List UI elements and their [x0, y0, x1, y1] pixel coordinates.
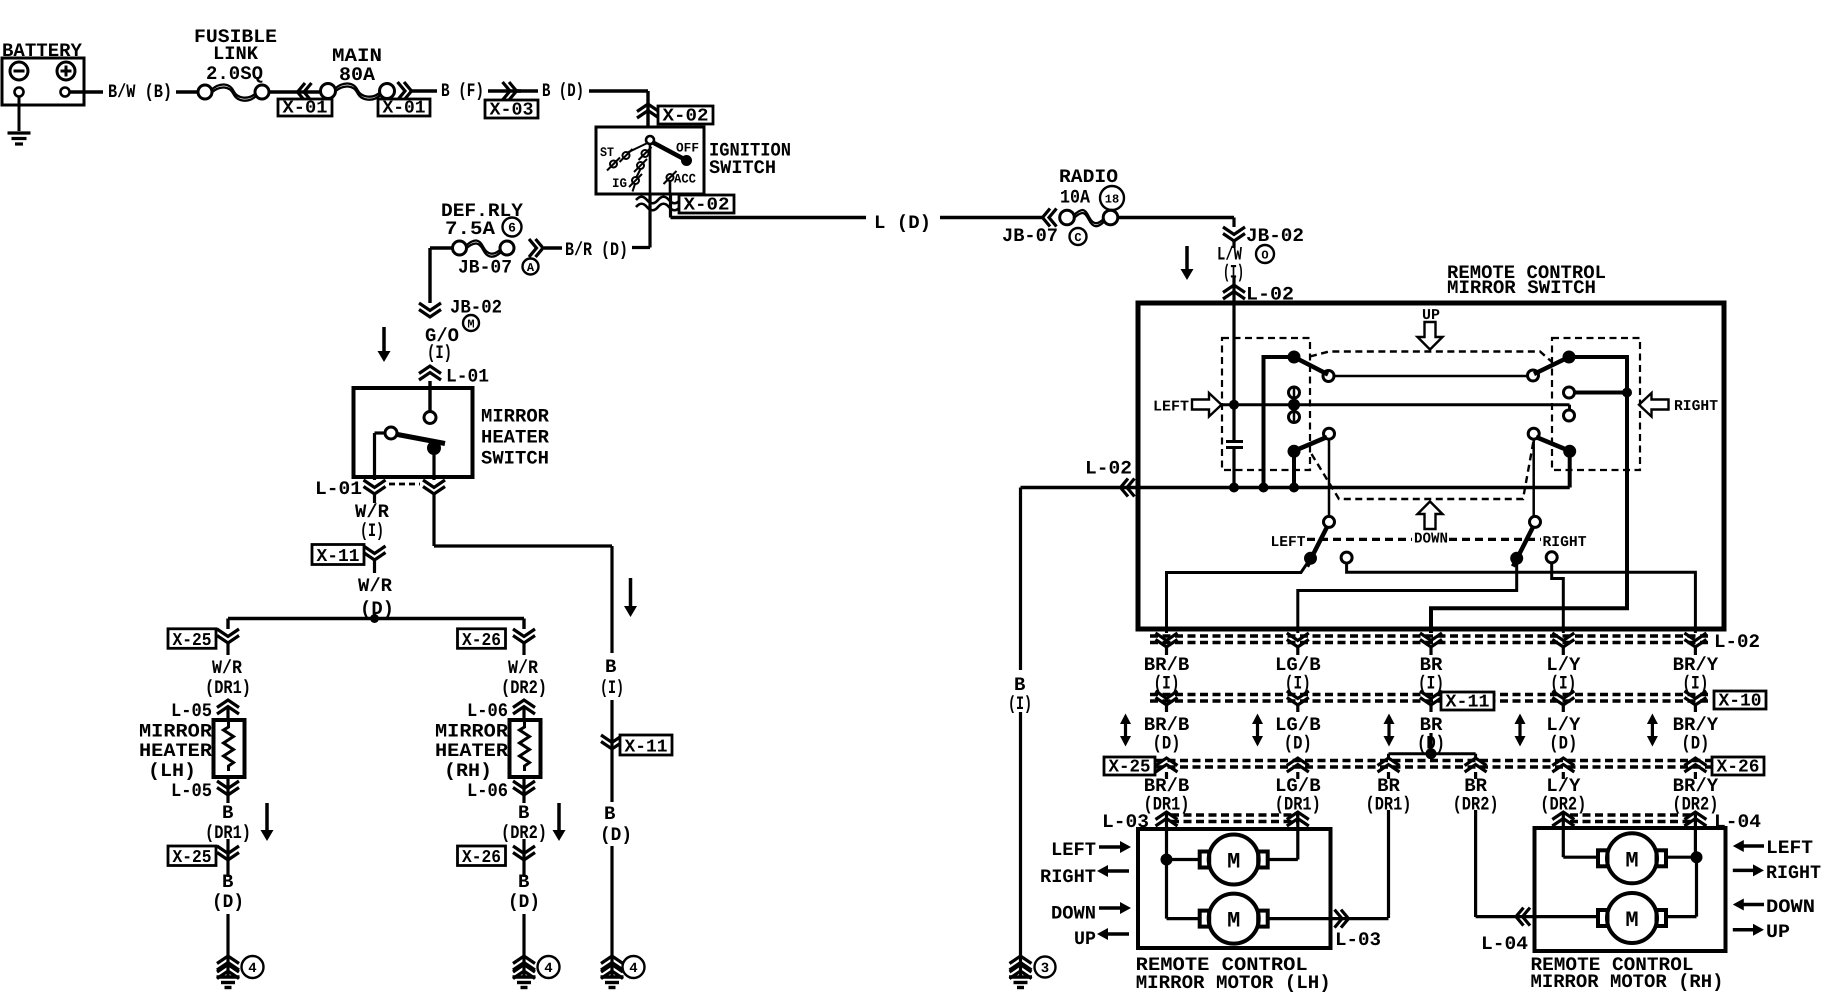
- svg-text:B: B: [222, 802, 233, 824]
- svg-text:SWITCH: SWITCH: [709, 157, 776, 179]
- svg-text:DOWN: DOWN: [1051, 903, 1096, 925]
- svg-text:(D): (D): [1284, 733, 1312, 755]
- svg-text:(I): (I): [1008, 693, 1032, 715]
- svg-text:X-26: X-26: [1717, 758, 1760, 778]
- svg-text:HEATER: HEATER: [481, 427, 550, 449]
- svg-text:LEFT: LEFT: [1766, 837, 1813, 859]
- svg-text:(RH): (RH): [444, 760, 492, 782]
- svg-text:X-25: X-25: [173, 848, 212, 868]
- svg-text:3: 3: [1041, 961, 1049, 977]
- svg-text:SWITCH: SWITCH: [481, 448, 549, 470]
- svg-text:B/R (D): B/R (D): [565, 239, 628, 261]
- svg-text:L-01: L-01: [315, 478, 362, 500]
- svg-text:(DR2): (DR2): [501, 677, 547, 699]
- svg-text:(D): (D): [508, 891, 540, 913]
- svg-text:B (F): B (F): [441, 80, 484, 102]
- svg-text:C: C: [1074, 231, 1081, 245]
- svg-text:X-11: X-11: [317, 547, 360, 567]
- svg-text:JB-02: JB-02: [450, 297, 502, 319]
- svg-text:(I): (I): [600, 677, 624, 699]
- svg-text:RADIO: RADIO: [1059, 166, 1118, 188]
- svg-text:(I): (I): [427, 342, 452, 364]
- svg-text:7.5A: 7.5A: [445, 218, 496, 240]
- svg-text:6: 6: [508, 221, 516, 236]
- svg-text:MIRROR MOTOR (RH): MIRROR MOTOR (RH): [1531, 971, 1724, 992]
- svg-text:B/W (B): B/W (B): [108, 81, 172, 103]
- svg-text:L-05: L-05: [171, 700, 212, 722]
- svg-text:DOWN: DOWN: [1766, 896, 1815, 918]
- svg-text:LINK: LINK: [213, 43, 259, 65]
- svg-text:(DR1): (DR1): [205, 677, 251, 699]
- svg-text:X-25: X-25: [173, 631, 212, 651]
- svg-text:ACC: ACC: [674, 172, 696, 187]
- svg-text:JB-07: JB-07: [458, 257, 512, 279]
- svg-text:L-01: L-01: [446, 366, 489, 388]
- svg-text:(LH): (LH): [148, 760, 196, 782]
- svg-text:X-02: X-02: [663, 107, 709, 127]
- svg-text:LEFT: LEFT: [1051, 839, 1096, 861]
- svg-text:(I): (I): [360, 520, 384, 542]
- svg-text:LEFT: LEFT: [1271, 534, 1306, 551]
- svg-text:X-11: X-11: [1446, 693, 1490, 713]
- svg-text:M: M: [1625, 908, 1638, 933]
- svg-text:(D): (D): [600, 824, 632, 846]
- svg-text:A: A: [527, 261, 535, 275]
- svg-text:(D): (D): [1153, 733, 1181, 755]
- svg-text:HEATER: HEATER: [139, 740, 213, 762]
- svg-text:MIRROR SWITCH: MIRROR SWITCH: [1447, 277, 1596, 299]
- svg-text:2.0SQ: 2.0SQ: [206, 63, 263, 85]
- svg-text:M: M: [467, 317, 474, 331]
- svg-text:B: B: [518, 802, 529, 824]
- svg-text:RIGHT: RIGHT: [1766, 862, 1821, 884]
- svg-text:(D): (D): [212, 891, 244, 913]
- svg-text:O: O: [1261, 248, 1268, 262]
- svg-text:B: B: [604, 803, 615, 825]
- svg-text:IG: IG: [612, 176, 627, 191]
- svg-text:M: M: [1227, 850, 1240, 875]
- svg-text:L-03: L-03: [1335, 929, 1381, 951]
- svg-text:M: M: [1625, 848, 1638, 873]
- svg-text:L-05: L-05: [171, 780, 212, 802]
- svg-text:L-02: L-02: [1085, 458, 1132, 480]
- svg-text:(D): (D): [1681, 733, 1709, 755]
- svg-text:L (D): L (D): [874, 212, 931, 234]
- svg-text:10A: 10A: [1060, 187, 1091, 209]
- svg-text:MIRROR: MIRROR: [481, 406, 550, 428]
- svg-text:(D): (D): [1549, 733, 1577, 755]
- svg-text:DOWN: DOWN: [1414, 531, 1448, 548]
- svg-text:UP: UP: [1074, 928, 1096, 950]
- svg-text:HEATER: HEATER: [435, 740, 509, 762]
- svg-text:M: M: [1227, 909, 1240, 934]
- svg-text:RIGHT: RIGHT: [1040, 866, 1096, 888]
- svg-text:X-11: X-11: [625, 738, 668, 758]
- svg-text:L-02: L-02: [1714, 631, 1760, 653]
- svg-text:RIGHT: RIGHT: [1543, 534, 1587, 551]
- svg-text:L-04: L-04: [1481, 933, 1528, 955]
- svg-text:LEFT: LEFT: [1153, 399, 1189, 416]
- svg-text:18: 18: [1105, 192, 1119, 206]
- svg-text:X-01: X-01: [283, 99, 328, 119]
- svg-text:W/R: W/R: [212, 657, 243, 679]
- svg-text:JB-07: JB-07: [1002, 225, 1058, 247]
- svg-text:B (D): B (D): [542, 80, 584, 102]
- svg-text:OFF: OFF: [676, 141, 699, 156]
- svg-text:W/R: W/R: [508, 657, 539, 679]
- svg-text:L-06: L-06: [467, 700, 508, 722]
- svg-text:B: B: [605, 656, 616, 678]
- svg-text:ST: ST: [600, 145, 614, 160]
- svg-text:B: B: [222, 871, 233, 893]
- svg-text:MIRROR MOTOR (LH): MIRROR MOTOR (LH): [1136, 972, 1331, 992]
- svg-text:X-10: X-10: [1719, 692, 1762, 712]
- svg-text:X-26: X-26: [462, 848, 501, 868]
- svg-text:X-01: X-01: [383, 99, 426, 119]
- svg-text:X-03: X-03: [490, 101, 534, 121]
- svg-text:4: 4: [629, 961, 637, 977]
- svg-text:X-02: X-02: [684, 196, 730, 216]
- svg-text:4: 4: [544, 961, 552, 977]
- svg-text:B: B: [518, 871, 529, 893]
- svg-text:JB-02: JB-02: [1246, 225, 1304, 247]
- svg-text:W/R: W/R: [358, 575, 393, 597]
- svg-text:RIGHT: RIGHT: [1674, 398, 1718, 415]
- svg-text:X-26: X-26: [462, 631, 501, 651]
- svg-text:4: 4: [248, 961, 256, 977]
- svg-text:UP: UP: [1766, 921, 1790, 943]
- svg-text:L-06: L-06: [467, 780, 508, 802]
